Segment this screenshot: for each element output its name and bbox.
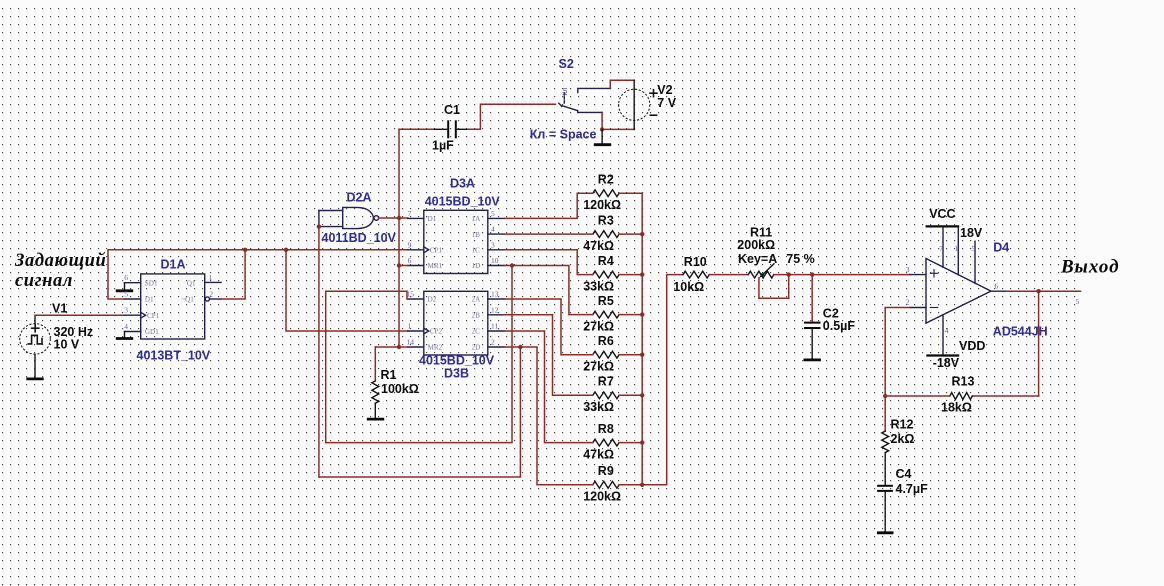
junction (bus/R8) (640, 440, 644, 444)
ground (V1) (26, 377, 43, 380)
resistor R9 zigzag (593, 481, 619, 488)
svg-text:11: 11 (491, 322, 498, 331)
wire 1A to R2 (504, 193, 593, 218)
label 18V (960, 226, 983, 240)
svg-text:27kΩ: 27kΩ (583, 319, 614, 333)
svg-text:6: 6 (408, 256, 412, 265)
label R13 (952, 375, 975, 389)
label 4013BT_10V (137, 349, 211, 363)
wire R1 riser (374, 347, 376, 381)
svg-text:R8: R8 (598, 422, 614, 436)
ground (S2/V2) (594, 129, 611, 144)
svg-text:14: 14 (407, 338, 415, 347)
svg-text:2: 2 (491, 338, 495, 347)
label R4 (598, 254, 614, 268)
svg-text:12: 12 (491, 305, 499, 314)
svg-text:CP2: CP2 (430, 328, 443, 336)
svg-text:2D: 2D (472, 344, 481, 352)
capacitor C4 plates (877, 486, 893, 491)
D2A input pins (319, 211, 343, 227)
op-amp pin 2 stub (910, 307, 926, 309)
svg-text:D1A: D1A (161, 257, 186, 271)
label D3B (444, 367, 469, 381)
svg-text:D3B: D3B (444, 367, 469, 381)
junction (bus/R5) (640, 312, 644, 316)
svg-text:4015BD_10V: 4015BD_10V (419, 354, 495, 368)
svg-text:R10: R10 (684, 255, 707, 269)
V1 top lead (34, 315, 36, 324)
wire 1D to R5 (504, 266, 593, 315)
D1A pin 4 GD1 stub (125, 331, 141, 333)
resistor R3 zigzag (593, 231, 619, 238)
label 18kΩ (941, 401, 972, 415)
svg-text:2A: 2A (472, 296, 482, 304)
resistor R2 zigzag (593, 190, 619, 197)
wire 2B to R7 (504, 315, 593, 396)
ground (D1A SD1) (116, 283, 133, 291)
C1 right lead (456, 128, 468, 130)
svg-text:6: 6 (995, 282, 999, 291)
svg-text:D3A: D3A (450, 176, 475, 190)
svg-text:5: 5 (491, 209, 495, 218)
wire R10 to R11 (709, 274, 748, 276)
svg-text:4013BT_10V: 4013BT_10V (137, 349, 211, 363)
D3A pin 7 D1 stub (408, 217, 424, 219)
wire D2A inputs down to 2D loop (318, 227, 320, 477)
svg-text:200kΩ: 200kΩ (737, 238, 775, 252)
resistor R6 zigzag (593, 351, 619, 358)
svg-text:C4: C4 (896, 467, 912, 481)
op-amp pin 4 riser (942, 315, 944, 355)
D3B pin numbers (407, 290, 499, 347)
capacitor C1 plates (448, 120, 456, 138)
label 4.7µF (896, 482, 929, 496)
svg-text:D2A: D2A (347, 191, 372, 205)
wire feedback node to pin 2 (885, 308, 910, 432)
svg-text:Q1: Q1 (187, 279, 196, 287)
D3B pin 11 2C stub (488, 330, 505, 332)
svg-text:33kΩ: 33kΩ (583, 279, 614, 293)
voltage source V2 circle (619, 89, 650, 120)
D3A pin 9 CP1 stub (408, 249, 424, 251)
wire R3 to bus (619, 233, 642, 235)
V1 square-wave glyph (28, 335, 42, 344)
wire loop 2D to D2A inputs (bottom) (319, 347, 521, 477)
svg-text:MR2: MR2 (428, 344, 443, 352)
junction (R13/R12/pin2 node) (883, 394, 887, 398)
svg-text:R7: R7 (598, 375, 614, 389)
svg-text:0.5µF: 0.5µF (823, 319, 856, 333)
svg-text:R6: R6 (598, 334, 614, 348)
svg-text:120kΩ: 120kΩ (583, 198, 621, 212)
wire R2 to bus (619, 192, 642, 194)
switch S2 top throw (578, 88, 611, 92)
D3A pin 10 1D stub (488, 265, 505, 267)
resistor R7 zigzag (593, 392, 619, 399)
svg-text:2: 2 (209, 289, 213, 298)
label R2 value 120kΩ (583, 198, 621, 212)
op-amp pin 6 output stub (991, 290, 1007, 292)
wire S2 top throw to V2 plus (610, 80, 634, 88)
shift register D3B box (424, 291, 488, 355)
svg-text:2C: 2C (472, 328, 481, 336)
D2A output bubble (374, 216, 379, 221)
wire bus corner to D1A pin5 (108, 250, 408, 299)
label VDD (959, 339, 985, 353)
svg-text:4.7µF: 4.7µF (896, 482, 929, 496)
V1 value 10 V (54, 338, 80, 352)
op-amp minus sign (930, 307, 937, 309)
label C4 (896, 467, 912, 481)
svg-text:9: 9 (408, 240, 412, 249)
label Выход (1060, 256, 1120, 277)
svg-text:18V: 18V (960, 226, 983, 240)
label 7 V (657, 96, 676, 110)
svg-text:R5: R5 (598, 294, 614, 308)
label D3A (450, 176, 475, 190)
label 2kΩ (891, 432, 915, 446)
wire R8 to bus (619, 442, 642, 444)
resistor R13 zigzag (950, 393, 973, 400)
junction (C1 net / MR1) (397, 263, 401, 267)
svg-text:1µF: 1µF (432, 139, 454, 153)
label R11 (750, 226, 772, 240)
wire 2A to R6 (504, 299, 593, 355)
label -18V (933, 356, 960, 370)
label R3 value 47kΩ (583, 239, 614, 253)
label C2 (823, 307, 839, 321)
wire bus bottom to R10 riser (642, 275, 683, 485)
svg-text:4: 4 (945, 326, 949, 335)
title line 1: Задающий (14, 251, 106, 271)
wire R5 to bus (619, 314, 642, 316)
svg-text:5: 5 (972, 244, 976, 253)
wire down to C2 (811, 275, 813, 322)
label 4015BD_10V (D3B) (419, 354, 495, 368)
svg-text:~Q1: ~Q1 (181, 296, 194, 304)
D1A pin 1 Q1 stub (205, 281, 221, 283)
label R7 (598, 375, 614, 389)
voltage source V1 (square wave) circle (20, 324, 51, 355)
potentiometer R11 zigzag (748, 271, 774, 278)
svg-text:CP1: CP1 (430, 247, 443, 255)
svg-text:1: 1 (408, 322, 412, 331)
label R5 (598, 294, 614, 308)
label R1 (381, 368, 397, 382)
junction (C2 tap) (810, 272, 814, 276)
svg-text:S2: S2 (559, 57, 574, 71)
wire 1C to R4 (504, 250, 593, 275)
svg-text:Кл = Space: Кл = Space (530, 127, 597, 141)
wire R13 left lead (885, 395, 950, 397)
V1 value 320 Hz (54, 325, 94, 339)
svg-text:SD1: SD1 (145, 279, 158, 287)
switch S2 pole tick (559, 103, 562, 106)
svg-text:1C: 1C (472, 247, 481, 255)
R11 wiper arrow (759, 264, 774, 278)
label D4 (993, 241, 1009, 255)
svg-text:27kΩ: 27kΩ (583, 360, 614, 374)
wire MR1 to C1 net (399, 265, 408, 267)
svg-text:3: 3 (124, 306, 128, 315)
shift register D3A box (424, 210, 488, 273)
svg-text:V1: V1 (52, 302, 67, 316)
svg-text:AD544JH: AD544JH (993, 324, 1048, 338)
label R3 (598, 213, 614, 227)
junction (D2A lower input) (317, 224, 321, 228)
V1 plus sign (32, 325, 39, 332)
svg-text:R2: R2 (598, 172, 614, 186)
wire MR2 row (375, 346, 408, 348)
wire loop 1D to D2 (bottom) (326, 266, 512, 443)
VCC rail bar (926, 225, 960, 227)
svg-text:33kΩ: 33kΩ (583, 400, 614, 414)
op-amp D4 triangle (926, 259, 991, 324)
op-amp pin numbers (906, 244, 999, 335)
svg-text:10kΩ: 10kΩ (673, 280, 704, 294)
D1A pin numbers (124, 273, 213, 331)
svg-text:10 V: 10 V (54, 338, 80, 352)
svg-text:VDD: VDD (959, 339, 985, 353)
wire D2A output to D3A pin7 (379, 217, 408, 219)
D1A inner pin names (145, 279, 196, 336)
svg-text:1A: 1A (472, 215, 482, 223)
svg-text:Key=A: Key=A (738, 252, 777, 266)
svg-text:4011BD_10V: 4011BD_10V (322, 231, 397, 245)
C1 left lead (433, 128, 448, 130)
D3A pin 3 1C stub (488, 249, 505, 251)
D1A ~Q1 inversion bubble (205, 297, 209, 301)
wire R7 to bus (619, 394, 642, 396)
D3B pin 1 CP2 stub (408, 330, 424, 332)
D3A pin 4 1B stub (488, 233, 505, 235)
op-amp pin 3 stub (910, 274, 926, 276)
C4 bottom lead (884, 491, 886, 532)
R11 wiper loop wire (759, 275, 789, 299)
wire output down to R13 (1038, 291, 1040, 396)
svg-text:2kΩ: 2kΩ (891, 432, 915, 446)
label R8 value 47kΩ (583, 447, 614, 461)
V2 internal lead (633, 80, 635, 129)
svg-text:5: 5 (1076, 297, 1080, 306)
label R6 value 27kΩ (583, 360, 614, 374)
D3A pin 6 MR1 stub (408, 265, 424, 267)
svg-text:Выход: Выход (1060, 256, 1120, 277)
svg-text:3: 3 (906, 265, 910, 274)
svg-text:4: 4 (491, 225, 495, 234)
wire 1B to R3 (504, 233, 593, 235)
VDD rail bar (926, 354, 959, 356)
wire R4 to bus (619, 274, 642, 276)
svg-text:100kΩ: 100kΩ (381, 382, 419, 396)
label 75 % (786, 252, 815, 266)
switch S2 actuator dashed (563, 93, 565, 104)
D3B inner pin names (428, 296, 482, 352)
wire R9 to bus (619, 484, 642, 486)
resistor R8 zigzag (593, 439, 619, 446)
junction (1D loop) (510, 263, 514, 267)
junction (bus/R6) (640, 353, 644, 357)
label V1 (52, 302, 67, 316)
junction (C1 net / MR2) (397, 345, 401, 349)
junction (bus/R9) (640, 483, 644, 487)
svg-text:1: 1 (955, 244, 959, 253)
svg-text:1: 1 (209, 273, 213, 282)
svg-text:10: 10 (491, 256, 499, 265)
D3B pin 12 2B stub (488, 314, 505, 316)
wire bus drop to D3B CP2 (286, 250, 408, 331)
D3B pin 13 2A stub (488, 298, 505, 300)
label R9 (598, 464, 614, 478)
label R7 value 33kΩ (583, 400, 614, 414)
resistor R4 zigzag (593, 271, 619, 278)
junction (bus/R7) (640, 393, 644, 397)
label 200kΩ (737, 238, 775, 252)
junction (output/R13) (1036, 289, 1040, 293)
wire summing bus vertical (641, 193, 643, 485)
svg-text:MR1: MR1 (428, 262, 443, 270)
D3B pin 2 2D stub (488, 346, 505, 348)
label 4011BD_10V (322, 231, 397, 245)
svg-text:CP1: CP1 (147, 312, 160, 320)
D1A pin 2 ~Q1 stub (210, 298, 222, 300)
label D1A (161, 257, 186, 271)
label 4015BD_10V (D3A) (425, 194, 501, 208)
R12 to C4 lead (884, 453, 886, 486)
label 10kΩ (673, 280, 704, 294)
svg-text:4015BD_10V: 4015BD_10V (425, 194, 501, 208)
svg-text:R1: R1 (381, 368, 397, 382)
svg-text:4: 4 (124, 322, 128, 331)
label R5 value 27kΩ (583, 319, 614, 333)
resistor R1 zigzag (372, 381, 379, 403)
svg-text:18kΩ: 18kΩ (941, 401, 972, 415)
wire V1 to D1A pin3 CP1 (35, 314, 125, 316)
wire 2D to R9 (504, 347, 593, 485)
D3A inner pin names (428, 215, 482, 270)
junction (bus / ~Q1 riser) (243, 248, 247, 252)
D1A pin 5 D1 stub (125, 298, 141, 300)
D3B pin 14 MR2 stub (408, 346, 424, 348)
wire R6 to bus (619, 354, 642, 356)
svg-text:R13: R13 (952, 375, 975, 389)
svg-text:D4: D4 (993, 241, 1009, 255)
resistor R12 zigzag (882, 431, 889, 453)
label D2A (347, 191, 372, 205)
svg-text:VCC: VCC (929, 207, 955, 221)
svg-text:1B: 1B (472, 231, 481, 239)
wire ground node to V2 minus (602, 128, 634, 130)
svg-text:47kΩ: 47kΩ (583, 447, 614, 461)
op-amp plus sign (930, 270, 937, 277)
label V2 (657, 83, 672, 97)
R1 bottom lead (374, 403, 376, 418)
ground (C4) (877, 531, 894, 534)
label 0.5µF (823, 319, 856, 333)
label C1 (444, 103, 460, 117)
switch S2 bottom throw (578, 111, 602, 113)
label S2 (559, 57, 574, 71)
label R9 value 120kΩ (583, 490, 621, 504)
D3A pin numbers (408, 209, 499, 265)
svg-text:D2: D2 (428, 296, 437, 304)
wire C1 vertical net (C1/D2A out/MR1/MR2) (398, 129, 400, 347)
label R12 (891, 418, 914, 432)
switch S2 key glyphs (rotated) (562, 88, 569, 96)
title line 2: сигнал (15, 271, 73, 291)
svg-text:D1: D1 (145, 296, 154, 304)
wire ~Q1 riser to bus (221, 250, 245, 299)
wire 2C to R8 (504, 331, 593, 443)
wire R13 right lead (972, 395, 1038, 397)
svg-text:3: 3 (491, 240, 495, 249)
V2 minus sign (650, 114, 656, 116)
flip-flop D1A box (141, 274, 205, 339)
net number 5 (1076, 297, 1080, 306)
junction (R11 wiper) (787, 272, 791, 276)
svg-text:R9: R9 (598, 464, 614, 478)
D1A pin 6 SD1 stub (125, 282, 141, 284)
V1 bottom lead (34, 354, 36, 378)
junction (2D loop) (518, 345, 522, 349)
label R2 (598, 172, 614, 186)
label 100kΩ (381, 382, 419, 396)
switch S2 blade (561, 105, 577, 110)
svg-text:сигнал: сигнал (15, 271, 73, 291)
NAND gate D2A body (343, 207, 374, 228)
resistor R10 zigzag (683, 271, 709, 278)
D3A pin 5 1A stub (488, 217, 505, 219)
wire op-amp output (1007, 290, 1081, 292)
junction (V2 minus / ground) (600, 127, 604, 131)
junction (bus/R4) (640, 272, 644, 276)
svg-text:D1: D1 (428, 215, 437, 223)
D3A CP1 clock wedge (424, 247, 429, 253)
svg-text:R3: R3 (598, 213, 614, 227)
svg-text:7 V: 7 V (657, 96, 676, 110)
ground (R1) (367, 418, 384, 421)
label Кл = Space (530, 127, 597, 141)
svg-text:Кл: Кл (562, 88, 569, 96)
svg-text:Задающий: Задающий (14, 251, 106, 271)
label Key=A (738, 252, 777, 266)
svg-text:GD1: GD1 (145, 328, 159, 336)
label VCC (929, 207, 955, 221)
junction (bus / CP2 drop) (284, 248, 288, 252)
wire R11 to op-amp (774, 274, 910, 276)
capacitor C2 plates (804, 323, 821, 328)
op-amp pin 1 riser (957, 228, 959, 275)
svg-text:75 %: 75 % (786, 252, 815, 266)
svg-text:2B: 2B (472, 312, 481, 320)
V2 plus sign (650, 90, 657, 97)
svg-text:-18V: -18V (933, 356, 960, 370)
ground (D1A GD1) (116, 332, 133, 339)
svg-text:6: 6 (124, 273, 128, 282)
D3B CP2 clock wedge (424, 328, 429, 334)
wire C1 right to switch (468, 104, 556, 129)
svg-text:47kΩ: 47kΩ (583, 239, 614, 253)
label R6 (598, 334, 614, 348)
svg-text:1D: 1D (472, 262, 481, 270)
svg-text:C1: C1 (444, 103, 460, 117)
svg-text:5: 5 (124, 290, 128, 299)
D1A pin 3 CP1 stub (125, 314, 141, 316)
svg-text:7: 7 (939, 244, 943, 253)
C2 bottom lead (811, 328, 813, 359)
wire C1 left to vertical (399, 128, 433, 130)
label R10 (684, 255, 707, 269)
